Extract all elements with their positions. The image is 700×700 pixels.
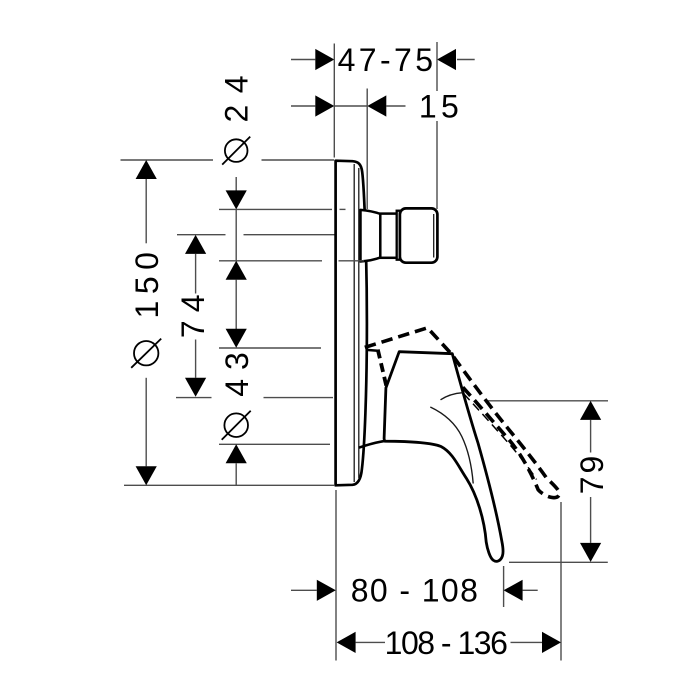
- stop valve knob body: [400, 208, 438, 262]
- extension line boss bottom y444: [219, 443, 330, 445]
- extension line knob end x437: [436, 42, 438, 209]
- plate rim contour lines: [354, 164, 359, 482]
- extension line knob bottom y261: [219, 260, 322, 262]
- lever contour swoosh upper: [441, 393, 463, 400]
- dimension D43 arrows: [226, 329, 247, 464]
- svg-text:79: 79: [574, 453, 610, 494]
- dimension 80-108 lines: [291, 589, 538, 591]
- dashed lever boss left edge: [378, 350, 387, 389]
- dimension 47-75 arrows: [315, 49, 456, 70]
- dashed lever inner contour: [464, 394, 537, 480]
- dimension 108-136 arrows: [337, 632, 561, 653]
- dimension 79 extension lines: [488, 401, 608, 563]
- stop valve flange: [397, 211, 400, 260]
- dimension D43 diameter symbol: [222, 411, 251, 440]
- svg-text:47-75: 47-75: [338, 42, 437, 78]
- extension line knob axis y234.7: [177, 234, 336, 236]
- svg-text:80 - 108: 80 - 108: [351, 572, 480, 608]
- dimension 47-75 leader lines: [291, 59, 475, 61]
- extension line stubs over plate: [339, 209, 365, 260]
- stop valve small cylinder: [380, 214, 397, 258]
- extension line plate bottom y485: [124, 484, 334, 486]
- extension line knob top y209: [219, 208, 332, 210]
- dimension 15 arrows: [315, 95, 386, 116]
- stop valve cone: [361, 210, 381, 262]
- dimension 74 arrows: [185, 235, 206, 397]
- lever contour swoosh lower: [430, 407, 473, 484]
- dimension 79 line: [590, 420, 592, 543]
- lever handle solid: [384, 352, 503, 562]
- svg-text:108 - 136: 108 - 136: [385, 625, 507, 661]
- dimension 108-136 lines: [356, 641, 542, 643]
- extension line wall face top: [333, 44, 335, 158]
- dimension D24 diameter symbol: [222, 137, 250, 165]
- svg-text:74: 74: [175, 287, 211, 339]
- svg-text:1 5: 1 5: [419, 89, 458, 125]
- svg-text:150: 150: [129, 246, 165, 319]
- extension line wall face bottom x336: [335, 490, 337, 661]
- dimension 74 line: [195, 254, 197, 378]
- dimension D43 line: [235, 463, 237, 485]
- dimension D150 diameter symbol: [131, 339, 161, 368]
- dimension D24 arrows: [226, 190, 247, 279]
- handle back section top edge: [367, 350, 380, 351]
- extension line solid lever tip x503.6: [503, 566, 505, 607]
- escutcheon plate: [336, 161, 367, 486]
- handle underside left curve: [359, 441, 385, 448]
- extension line dashed lever tip x561: [560, 502, 562, 661]
- extension line boss top y348: [219, 347, 321, 349]
- extension line plate top y160: [121, 159, 335, 161]
- dimension 79 arrows: [580, 401, 601, 562]
- dimension D150 line: [145, 179, 147, 466]
- extension line 15 right: [366, 89, 368, 210]
- svg-text:43: 43: [219, 343, 255, 397]
- dimension 15 lines: [291, 105, 406, 107]
- extension line handle axis y397.6: [176, 397, 333, 399]
- dimension D150 arrows: [136, 160, 157, 485]
- dimension D24 line: [235, 177, 237, 329]
- dimension 80-108 arrows: [317, 580, 523, 601]
- knob contour line: [433, 214, 435, 258]
- svg-text:24: 24: [218, 64, 254, 123]
- dashed lever raised position outline: [365, 328, 560, 498]
